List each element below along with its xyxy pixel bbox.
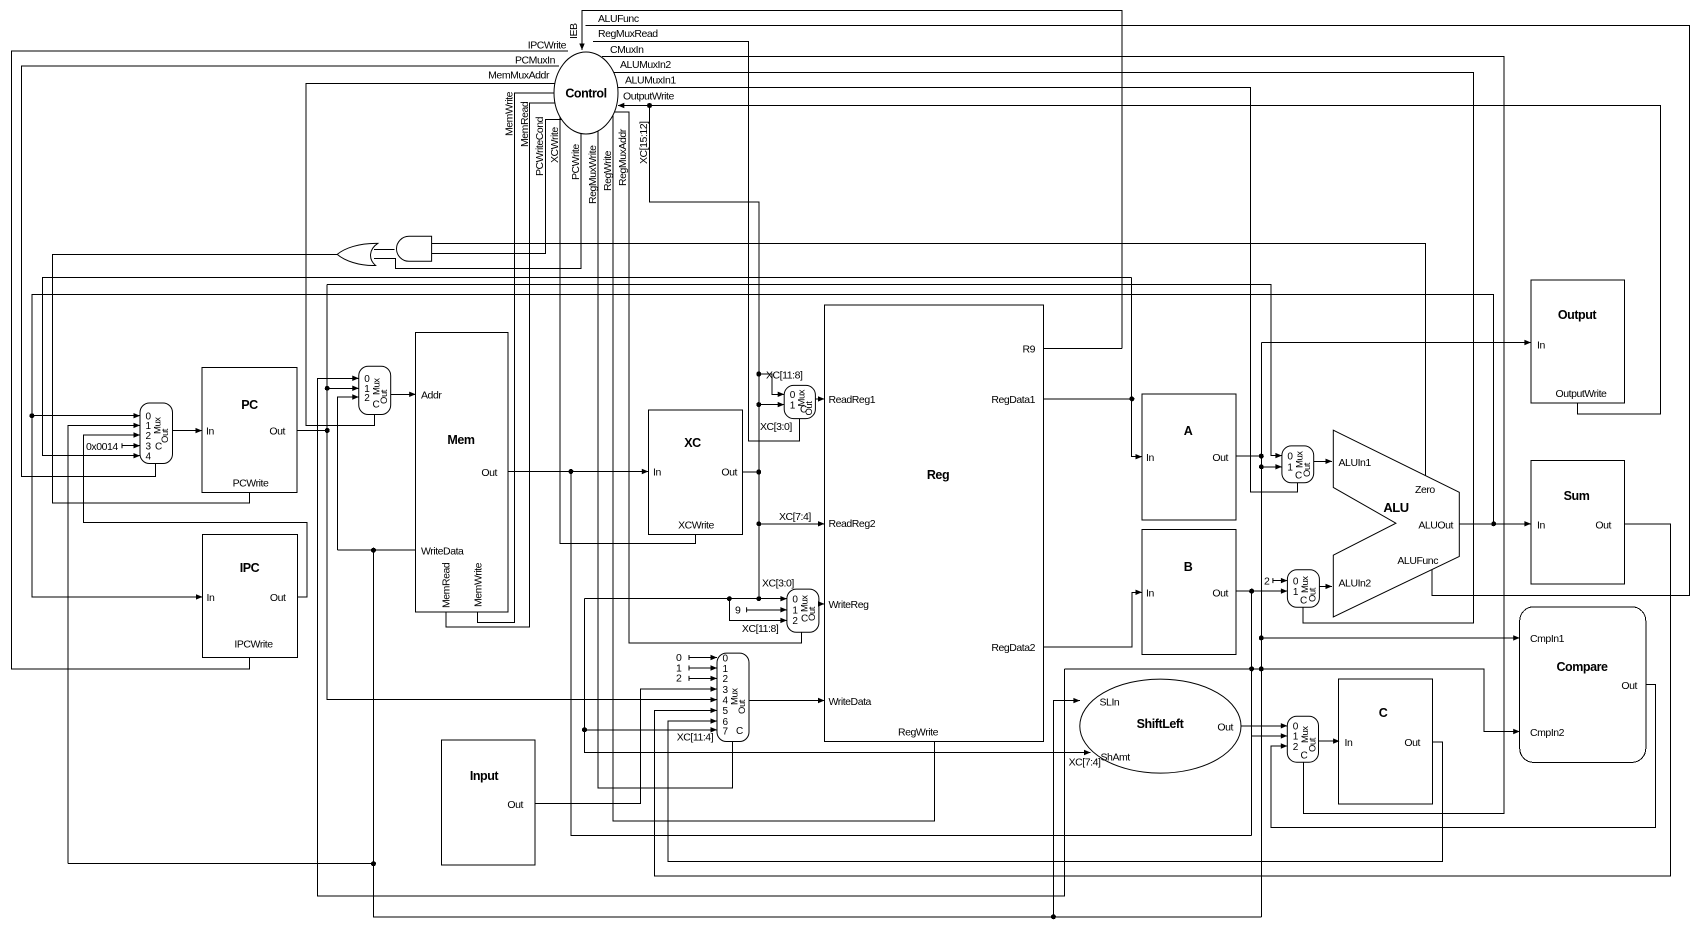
mux WriteReg mux bbox=[787, 589, 819, 632]
svg-text:ALUMuxIn1: ALUMuxIn1 bbox=[625, 75, 676, 87]
wire A net column bbox=[1260, 343, 1262, 917]
svg-text:ShiftLeft: ShiftLeft bbox=[1137, 717, 1185, 731]
svg-text:ShAmt: ShAmt bbox=[1101, 752, 1131, 764]
junction ALUOut at Sum In bbox=[1491, 521, 1496, 526]
memory Mem bbox=[416, 332, 509, 612]
svg-text:5: 5 bbox=[723, 706, 729, 717]
wire A net bottom run bbox=[374, 550, 1262, 917]
wire A net to ALUIn1 mux input 1 bbox=[1261, 466, 1282, 468]
wire XC[11:8] to WriteReg mux input 2 bbox=[729, 599, 787, 621]
svg-text:Out: Out bbox=[481, 467, 497, 479]
svg-text:C: C bbox=[1301, 751, 1308, 762]
junction A net ShiftLeft SLIn bbox=[1051, 914, 1056, 919]
svg-text:2: 2 bbox=[792, 616, 798, 627]
svg-text:In: In bbox=[1345, 737, 1353, 749]
svg-text:1: 1 bbox=[723, 664, 729, 675]
svg-text:Control: Control bbox=[565, 87, 606, 101]
svg-text:ALUFunc: ALUFunc bbox=[1397, 555, 1438, 567]
wire ALUIn2 mux output to ALU bbox=[1319, 585, 1332, 587]
svg-text:XC: XC bbox=[684, 436, 701, 450]
svg-text:C: C bbox=[1300, 596, 1307, 607]
svg-text:0: 0 bbox=[1293, 576, 1299, 587]
wire Compare Out to C mux input 2 bbox=[1271, 685, 1655, 828]
junction B net CmpIn2 line bbox=[1249, 666, 1254, 671]
svg-text:C: C bbox=[1295, 471, 1302, 482]
junction Mem Out branch bbox=[568, 469, 573, 474]
junction B Out bbox=[1249, 589, 1254, 594]
svg-text:XC[7:4]: XC[7:4] bbox=[779, 511, 811, 523]
svg-text:C: C bbox=[800, 405, 807, 416]
svg-text:OutputWrite: OutputWrite bbox=[1556, 388, 1607, 400]
wire constant 0x0014 to PC mux input 3 bbox=[122, 445, 140, 447]
svg-text:Out: Out bbox=[1212, 452, 1228, 464]
svg-text:7: 7 bbox=[723, 727, 729, 738]
register XC (instruction) bbox=[648, 410, 742, 534]
wire XC[3:0] to ReadReg1 mux input 1 bbox=[759, 404, 784, 406]
svg-text:Out: Out bbox=[807, 606, 818, 621]
wire constant 9 to WriteReg mux input 1 bbox=[747, 609, 787, 611]
svg-text:Output: Output bbox=[1558, 308, 1598, 322]
svg-text:Out: Out bbox=[1595, 520, 1611, 532]
svg-text:0: 0 bbox=[792, 595, 798, 606]
svg-text:1: 1 bbox=[790, 400, 796, 411]
wire RegData1 to PC mux input 4 bbox=[43, 277, 1132, 455]
wire A net to Output In bbox=[1261, 342, 1531, 344]
register A bbox=[1142, 394, 1236, 520]
wire B Out to ALUIn2 mux input 1 bbox=[1236, 590, 1288, 592]
junction A net ALUIn1 mux input 1 bbox=[1259, 464, 1264, 469]
svg-text:RegMuxWrite: RegMuxWrite bbox=[587, 145, 599, 204]
wire WriteData mux output to Reg WriteData bbox=[749, 700, 825, 702]
svg-text:WriteReg: WriteReg bbox=[829, 599, 870, 611]
svg-text:MemMuxAddr: MemMuxAddr bbox=[488, 70, 550, 82]
junction A net Mem WriteData bbox=[371, 548, 376, 553]
junction A net CmpIn2 line bbox=[1259, 666, 1264, 671]
svg-text:Out: Out bbox=[1212, 588, 1228, 600]
wire A Out bbox=[1236, 455, 1262, 457]
register C bbox=[1339, 679, 1433, 804]
svg-text:0: 0 bbox=[723, 653, 729, 664]
device Output bbox=[1531, 280, 1625, 403]
svg-text:PC: PC bbox=[241, 398, 258, 412]
svg-text:In: In bbox=[1537, 520, 1545, 532]
wire Sum Out to WriteData mux input 5 bbox=[654, 524, 1670, 876]
junction XC bus WriteReg mux bbox=[756, 596, 761, 601]
wire XC[11:4] to WriteData mux input 7 bbox=[585, 729, 718, 731]
wire B net to Compare CmpIn2 bbox=[1064, 669, 1519, 732]
svg-text:In: In bbox=[1146, 452, 1154, 464]
svg-text:ALU: ALU bbox=[1383, 500, 1408, 515]
svg-text:Out: Out bbox=[721, 467, 737, 479]
svg-text:PCWriteCond: PCWriteCond bbox=[534, 116, 546, 176]
svg-text:XC[11:4]: XC[11:4] bbox=[677, 732, 714, 744]
svg-text:Out: Out bbox=[1621, 680, 1637, 692]
wire PCWrite (control to OR gate input 2) bbox=[374, 134, 581, 269]
svg-text:Out: Out bbox=[1307, 587, 1318, 602]
wire ShiftLeft Out to C mux input 0 bbox=[1241, 725, 1287, 727]
svg-text:ALUOut: ALUOut bbox=[1418, 520, 1453, 532]
svg-text:Out: Out bbox=[1302, 462, 1313, 477]
svg-text:1: 1 bbox=[1293, 587, 1299, 598]
svg-text:ALUIn1: ALUIn1 bbox=[1339, 457, 1372, 469]
mux WriteData mux bbox=[717, 653, 749, 741]
wire ALUMuxIn1 (control to ALUIn2 mux select C) bbox=[612, 72, 1474, 623]
svg-text:Reg: Reg bbox=[927, 468, 949, 482]
wire XC Out to bus bbox=[743, 471, 759, 473]
svg-text:CmpIn2: CmpIn2 bbox=[1530, 727, 1565, 739]
wire RegMuxRead (control to ALU ALUFunc pin) bbox=[586, 26, 1690, 596]
svg-text:B: B bbox=[1184, 560, 1193, 574]
svg-text:2: 2 bbox=[364, 393, 370, 404]
svg-text:XC[7:4]: XC[7:4] bbox=[1069, 757, 1101, 769]
mux C input mux bbox=[1287, 716, 1318, 762]
svg-text:C: C bbox=[373, 400, 380, 411]
wire MemMuxAddr (control to Mem addr mux select C) bbox=[306, 83, 556, 425]
svg-text:1: 1 bbox=[792, 606, 798, 617]
svg-text:ALUIn2: ALUIn2 bbox=[1339, 578, 1372, 590]
wire RegMuxAddr (control to WriteReg mux select C) bbox=[614, 112, 802, 643]
svg-text:ReadReg1: ReadReg1 bbox=[829, 394, 876, 406]
junction XC bus XC Out bbox=[756, 470, 761, 475]
wire B net to C mux input 1 bbox=[1252, 735, 1288, 737]
wire ReadReg1 mux output to Reg bbox=[815, 398, 824, 400]
wire PC Out column to WriteData mux input 4 bbox=[327, 285, 717, 700]
wire PCMuxIn (control to PC mux select C) bbox=[22, 66, 560, 476]
junction XC bus XC[7:4] bbox=[756, 521, 761, 526]
svg-text:Mem: Mem bbox=[447, 433, 474, 447]
junction XC net WriteData mux input 7 bbox=[582, 727, 587, 732]
wire XC[15:12] (control tap down to XC bus) bbox=[650, 106, 759, 599]
mux PC input mux bbox=[140, 403, 173, 464]
svg-text:RegMuxRead: RegMuxRead bbox=[598, 28, 658, 40]
wire RegData1 (Reg to A) bbox=[1044, 398, 1132, 400]
wire ALUMuxIn2 (control to C mux select C) bbox=[602, 56, 1504, 813]
wire ALUOut to Sum In bbox=[1459, 523, 1531, 525]
junction XC net WriteReg mux input 2 bbox=[727, 596, 732, 601]
wire A net to PC mux input 1 bbox=[68, 425, 140, 863]
svg-text:CMuxIn: CMuxIn bbox=[610, 44, 644, 56]
wire WriteReg mux output to Reg bbox=[819, 603, 825, 605]
wire ALUIn1 mux output to ALU bbox=[1314, 460, 1332, 462]
svg-text:CmpIn1: CmpIn1 bbox=[1530, 633, 1565, 645]
svg-text:4: 4 bbox=[723, 696, 729, 707]
svg-text:XC[15:12]: XC[15:12] bbox=[638, 121, 650, 164]
arrowheads bbox=[122, 44, 1531, 756]
svg-text:ReadReg2: ReadReg2 bbox=[829, 518, 876, 530]
svg-text:Compare: Compare bbox=[1556, 660, 1608, 674]
wire A In column (RegData1 feedback) bbox=[1132, 277, 1142, 456]
wire constant 1 to WriteData mux input 1 bbox=[689, 667, 717, 669]
wire MemRead (control to Mem) bbox=[446, 103, 555, 627]
register Sum bbox=[1531, 461, 1625, 584]
svg-text:In: In bbox=[653, 467, 661, 479]
wire RegMuxWrite (control to WriteData mux select C) bbox=[598, 131, 733, 788]
wire B net to Mem addr mux input 0 bbox=[318, 378, 1065, 896]
svg-text:XC[11:8]: XC[11:8] bbox=[742, 623, 779, 635]
svg-text:XCWrite: XCWrite bbox=[678, 520, 714, 532]
svg-text:4: 4 bbox=[146, 452, 152, 463]
svg-text:XC[3:0]: XC[3:0] bbox=[762, 578, 794, 590]
function unit ShiftLeft (ellipse) bbox=[1080, 679, 1241, 773]
svg-text:Out: Out bbox=[737, 699, 748, 714]
svg-text:RegData2: RegData2 bbox=[991, 642, 1035, 654]
register file Reg bbox=[825, 305, 1044, 742]
wire A net to Compare CmpIn1 bbox=[1261, 637, 1519, 639]
wire A net left branch bbox=[68, 863, 374, 865]
junction RegData1 at A In bbox=[1129, 396, 1134, 401]
junction XC bus XC[11:8] bbox=[756, 372, 761, 377]
svg-text:ALUMuxIn2: ALUMuxIn2 bbox=[620, 59, 671, 71]
mux ALUIn2 mux bbox=[1287, 570, 1319, 608]
svg-text:Out: Out bbox=[1307, 737, 1318, 752]
wire XC bus to WriteReg mux input 0 bbox=[585, 598, 787, 600]
wire CMuxIn (control to ReadReg1 mux select C) bbox=[593, 42, 799, 441]
svg-text:RegMuxAddr: RegMuxAddr bbox=[617, 128, 629, 186]
svg-text:MemRead: MemRead bbox=[519, 101, 531, 147]
junction ALUOut net at PC mux input 0 bbox=[29, 413, 34, 418]
wire AND output to OR input 1 bbox=[374, 248, 395, 250]
wire Mem Out to C mux input 1 junction bbox=[571, 472, 1252, 836]
svg-text:2: 2 bbox=[723, 674, 729, 685]
wire A net to Mem WriteData bbox=[338, 549, 416, 551]
svg-text:Out: Out bbox=[1217, 722, 1233, 734]
wire C Out to WriteData mux input 6 bbox=[668, 721, 1443, 861]
svg-text:Out: Out bbox=[379, 389, 390, 404]
svg-text:WriteData: WriteData bbox=[421, 546, 464, 558]
wire IPC Out to PC mux input 2 bbox=[83, 435, 307, 597]
wire R9 (Reg R9 output) bbox=[1044, 347, 1122, 349]
junction control feedback XC[15:12] bbox=[647, 103, 652, 108]
svg-text:3: 3 bbox=[723, 685, 729, 696]
junction A net left branch bbox=[371, 861, 376, 866]
svg-text:2: 2 bbox=[1293, 742, 1299, 753]
wire constant 2 to WriteData mux input 2 bbox=[689, 677, 717, 679]
wire ALUFunc (control top to R9 output) bbox=[582, 11, 1122, 349]
svg-text:C: C bbox=[736, 726, 743, 737]
register IPC bbox=[203, 534, 298, 657]
wire PCWriteCond (control to AND gate input 2) bbox=[432, 120, 563, 254]
svg-text:In: In bbox=[207, 592, 215, 604]
junction A net CmpIn1 bbox=[1259, 635, 1264, 640]
svg-text:PCWrite: PCWrite bbox=[570, 144, 582, 180]
svg-text:PCMuxIn: PCMuxIn bbox=[515, 55, 556, 67]
wire XCWrite (control to XC write enable) bbox=[560, 117, 695, 544]
svg-text:SLIn: SLIn bbox=[1100, 697, 1120, 709]
svg-text:C: C bbox=[1379, 706, 1388, 720]
wire XC[11:8] to ReadReg1 mux input 0 bbox=[759, 374, 784, 394]
svg-text:C: C bbox=[155, 442, 162, 453]
wire Input Out to WriteData mux input 3 bbox=[535, 689, 717, 803]
wire IPCWrite (control to IPC write enable) bbox=[11, 51, 568, 669]
svg-text:A: A bbox=[1184, 424, 1193, 438]
svg-text:In: In bbox=[1146, 588, 1154, 600]
svg-text:ALUFunc: ALUFunc bbox=[598, 13, 639, 25]
wire PC mux output to PC In bbox=[173, 430, 203, 432]
junction PC Out bbox=[325, 428, 330, 433]
wire XC net to ShiftLeft ShAmt bbox=[585, 599, 1091, 753]
mux Mem addr mux bbox=[359, 366, 391, 414]
svg-text:Zero: Zero bbox=[1415, 484, 1435, 496]
junction PC Out at Mem addr mux input 1 bbox=[325, 386, 330, 391]
svg-text:MemWrite: MemWrite bbox=[504, 91, 516, 136]
wire RegWrite (control to Reg write enable) bbox=[613, 115, 935, 821]
svg-text:IPC: IPC bbox=[240, 561, 260, 575]
wire OR output to PC write enable bbox=[53, 255, 338, 504]
svg-text:Input: Input bbox=[470, 769, 500, 783]
wire A net to ShiftLeft SLIn bbox=[1053, 701, 1080, 917]
wire constant 0 to WriteData mux input 0 bbox=[689, 657, 717, 659]
svg-text:2: 2 bbox=[1264, 576, 1270, 588]
wire constant 2 to ALUIn2 mux input 0 bbox=[1273, 580, 1288, 582]
wire C mux output to C In bbox=[1319, 740, 1340, 742]
svg-text:Out: Out bbox=[269, 426, 285, 438]
wire PC Out bbox=[297, 430, 327, 432]
svg-text:Addr: Addr bbox=[421, 390, 442, 402]
svg-text:Sum: Sum bbox=[1564, 489, 1590, 503]
ALU bbox=[1333, 430, 1459, 617]
svg-text:XC[3:0]: XC[3:0] bbox=[760, 421, 792, 433]
junction XC bus XC[3:0] bbox=[756, 402, 761, 407]
junction A net A Out bbox=[1259, 454, 1264, 459]
svg-text:RegWrite: RegWrite bbox=[898, 727, 939, 739]
svg-text:Out: Out bbox=[507, 799, 523, 811]
wire Mem Out to XC In bbox=[508, 471, 648, 473]
svg-text:Out: Out bbox=[1404, 737, 1420, 749]
device Input bbox=[441, 740, 535, 865]
OR gate (PC write enable) bbox=[337, 243, 378, 265]
register PC bbox=[202, 368, 297, 493]
wire control feedback (Output OutputWrite pin to control) bbox=[618, 106, 1661, 415]
wire PC Out to ALUIn1 mux input 0 bbox=[327, 285, 1282, 456]
svg-text:R9: R9 bbox=[1022, 344, 1035, 356]
svg-text:IPCWrite: IPCWrite bbox=[234, 639, 273, 651]
AND gate (PCWriteCond AND Zero) bbox=[396, 236, 431, 261]
wire ALUOut feedback to PC mux input 0 and IPC In bbox=[32, 295, 1494, 597]
svg-text:RegWrite: RegWrite bbox=[602, 150, 614, 191]
wire Zero (ALU Zero output to AND gate input 1) bbox=[432, 244, 1426, 476]
svg-text:0: 0 bbox=[1287, 451, 1293, 462]
wire PC Out tap to Mem addr mux input 1 bbox=[327, 387, 359, 389]
mux ALUIn1 mux bbox=[1282, 446, 1314, 483]
svg-text:C: C bbox=[801, 614, 808, 625]
svg-text:2: 2 bbox=[146, 431, 152, 442]
control unit Control (ellipse) bbox=[554, 52, 618, 134]
svg-text:Out: Out bbox=[270, 592, 286, 604]
wire RegData2 to B In bbox=[1044, 592, 1143, 647]
comparator Compare bbox=[1520, 607, 1646, 763]
register B bbox=[1142, 530, 1236, 655]
svg-text:WriteData: WriteData bbox=[829, 696, 872, 708]
svg-text:0x0014: 0x0014 bbox=[86, 441, 118, 453]
svg-text:2: 2 bbox=[676, 673, 682, 685]
svg-text:XCWrite: XCWrite bbox=[549, 127, 561, 163]
svg-text:OutputWrite: OutputWrite bbox=[623, 91, 674, 103]
wire B net column bbox=[1251, 591, 1253, 836]
wire A net to Mem addr mux input 2 bbox=[338, 397, 359, 550]
svg-text:IEB: IEB bbox=[568, 23, 580, 39]
svg-text:9: 9 bbox=[735, 605, 741, 617]
svg-text:1: 1 bbox=[1287, 463, 1293, 474]
wire ALUOut tap to PC mux input 0 bbox=[32, 415, 140, 417]
svg-text:In: In bbox=[206, 426, 214, 438]
svg-text:MemWrite: MemWrite bbox=[473, 562, 485, 607]
wire XC[7:4] to Reg ReadReg2 bbox=[759, 523, 825, 525]
svg-text:IPCWrite: IPCWrite bbox=[528, 40, 567, 52]
svg-text:MemRead: MemRead bbox=[441, 562, 453, 608]
wire MemWrite (control to Mem) bbox=[477, 93, 554, 622]
svg-text:XC[11:8]: XC[11:8] bbox=[766, 370, 803, 382]
svg-text:In: In bbox=[1537, 340, 1545, 352]
svg-text:PCWrite: PCWrite bbox=[233, 478, 269, 490]
wire OutputWrite (control to ALUIn1 mux select C) bbox=[618, 88, 1298, 492]
svg-text:RegData1: RegData1 bbox=[991, 394, 1035, 406]
wire Mem addr mux output to Mem Addr bbox=[391, 393, 416, 395]
mux ReadReg1 mux bbox=[784, 385, 815, 418]
